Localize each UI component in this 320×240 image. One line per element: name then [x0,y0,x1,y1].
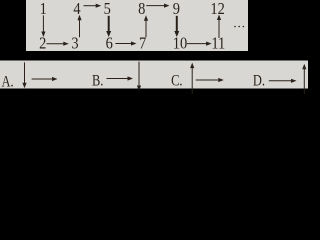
wire arrow 8 to 9 (right) [146,5,165,7]
svg-text:A.: A. [1,73,13,91]
svg-text:7: 7 [139,35,146,53]
svg-text:B.: B. [92,72,103,90]
wire arrow 6 to 7 (right) [115,43,132,45]
svg-text:12: 12 [210,0,225,18]
option B right arrow [107,78,129,80]
light patch behind answer options row [0,61,308,89]
wire arrow 1 to 2 (down) [42,15,44,32]
svg-text:2: 2 [39,35,46,53]
ellipsis dots [234,26,244,28]
svg-text:9: 9 [173,0,180,18]
svg-text:8: 8 [138,0,145,18]
wire arrow 10 to 11 (right) [187,43,208,45]
svg-text:D.: D. [253,72,265,90]
option D up arrow [303,68,305,94]
black page background [0,0,308,100]
option A down arrow [24,62,26,84]
option C up arrow [191,67,193,94]
wire arrow 7 to 8 (up) [145,20,147,38]
wire arrow 9 to 10 (down, thick) [176,16,178,32]
wire arrow 11 to 12 (up) [218,19,220,38]
wire arrow 4 to 5 (right) [84,5,98,7]
svg-text:10: 10 [173,35,188,53]
svg-text:5: 5 [104,0,111,18]
option A right arrow [32,78,54,80]
svg-text:6: 6 [106,35,113,53]
svg-text:3: 3 [71,35,78,53]
option B down arrow [138,62,140,87]
wire arrow 5 to 6 (down, thick) [108,16,110,32]
option C right arrow [196,79,220,81]
light patch behind snake diagram [26,0,248,51]
wire arrow 2 to 3 (right) [46,43,64,45]
wire arrow 3 to 4 (up) [79,19,81,37]
svg-text:11: 11 [211,35,225,53]
option D right arrow [269,80,292,82]
svg-text:C.: C. [171,72,182,90]
